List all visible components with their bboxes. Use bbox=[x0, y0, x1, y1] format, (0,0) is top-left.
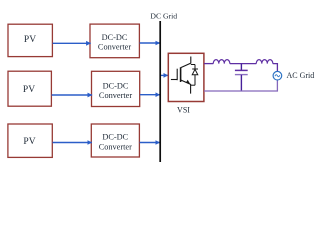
svg-text:DC-DC: DC-DC bbox=[102, 133, 128, 142]
PV panel 3 box bbox=[8, 124, 52, 157]
svg-text:PV: PV bbox=[23, 85, 35, 95]
svg-text:DC Grid: DC Grid bbox=[150, 11, 177, 20]
inductor L2 bbox=[256, 60, 273, 64]
wire arrow converter2 to DC bus bbox=[140, 94, 160, 96]
svg-text:Converter: Converter bbox=[99, 142, 132, 151]
inverter VSI box bbox=[168, 53, 204, 101]
PV panel 2 box bbox=[8, 71, 51, 106]
wire arrow converter3 to DC bus bbox=[140, 142, 160, 144]
inductor L1 bbox=[213, 60, 230, 64]
gate lead bbox=[171, 79, 177, 81]
svg-text:PV: PV bbox=[23, 137, 35, 147]
wire arrow converter1 to DC bus bbox=[140, 42, 160, 44]
capacitor C1 bbox=[235, 64, 248, 91]
DC-DC converter 3 box bbox=[91, 124, 139, 157]
body bar bbox=[180, 67, 182, 82]
svg-text:Converter: Converter bbox=[99, 91, 132, 100]
svg-text:DC-DC: DC-DC bbox=[102, 33, 128, 42]
wire VSI to inductor L1 bbox=[204, 63, 213, 65]
diode D1 antiparallel bbox=[191, 65, 198, 86]
wire L1 to node bbox=[230, 63, 256, 65]
emitter lead bbox=[181, 80, 191, 94]
svg-text:DC-DC: DC-DC bbox=[103, 81, 129, 90]
svg-text:VSI: VSI bbox=[177, 106, 190, 115]
svg-text:PV: PV bbox=[24, 35, 36, 45]
wire arrow PV3 to converter3 bbox=[53, 142, 92, 144]
collector lead bbox=[181, 57, 191, 68]
gate bar bbox=[176, 69, 178, 81]
svg-text:Converter: Converter bbox=[98, 42, 131, 51]
wire arrow DC bus to VSI bbox=[161, 74, 168, 76]
emitter arrowhead bbox=[186, 80, 190, 84]
wire bottom rail bbox=[204, 80, 277, 91]
DC Grid bus bar bbox=[159, 21, 161, 162]
svg-text:AC Grid: AC Grid bbox=[287, 71, 315, 80]
wire arrow PV1 to converter1 bbox=[53, 42, 91, 44]
PV panel 1 box bbox=[8, 24, 52, 56]
DC-DC converter 1 box bbox=[90, 24, 139, 58]
wire arrow PV2 to converter2 bbox=[52, 94, 93, 96]
AC source G1 bbox=[273, 71, 282, 80]
transistor IGBT inside VSI bbox=[171, 57, 191, 94]
DC-DC converter 2 box bbox=[92, 71, 140, 106]
wire L2 to AC source bbox=[273, 64, 278, 72]
